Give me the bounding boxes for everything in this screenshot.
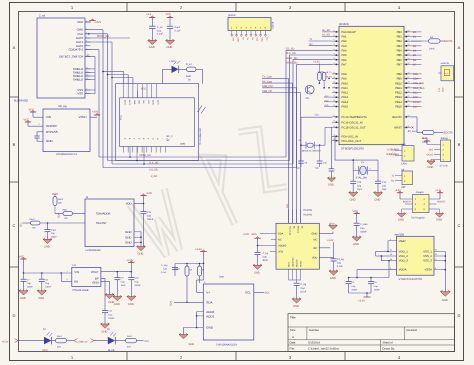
svg-text:VSS: VSS	[77, 92, 83, 96]
svg-text:100K: 100K	[429, 48, 435, 51]
svg-text:ON/OFF: ON/OFF	[46, 124, 57, 128]
svg-text:Rx: Rx	[251, 38, 254, 40]
svg-text:100nF: 100nF	[135, 284, 142, 287]
resistor pair pull-ups near PA8	[318, 66, 330, 89]
power flag +3.3V right of IMU	[327, 239, 334, 244]
svg-text:SDA: SDA	[206, 301, 212, 305]
svg-text:stm32B: stm32B	[395, 232, 405, 236]
capacitor C16 100nF at J2	[141, 211, 154, 247]
capacitor C12 at PC15	[329, 127, 335, 178]
svg-text:18: 18	[333, 71, 335, 74]
capacitor C12b at X2	[315, 145, 328, 169]
wire VSS rail to ground	[442, 251, 447, 291]
svg-text:DIO: DIO	[429, 149, 433, 152]
svg-text:100nF: 100nF	[45, 286, 52, 289]
svg-text:SCL/SCLK: SCL/SCLK	[289, 226, 292, 236]
svg-text:PA11: PA11	[342, 87, 349, 90]
svg-text:C1b: C1b	[147, 211, 152, 214]
wire CD/DAT3 vertical	[85, 50, 99, 157]
ground at C12	[327, 177, 335, 186]
SD card connector J1	[37, 14, 91, 99]
svg-text:22: 22	[333, 90, 335, 93]
svg-text:XTN045-33GB: XTN045-33GB	[72, 289, 89, 292]
wire VDDA branch	[348, 260, 397, 278]
net label SDA rotated	[58, 213, 61, 218]
net label RX_Cam near crystal	[387, 153, 397, 156]
svg-text:V+: V+	[206, 291, 210, 295]
svg-text:24: 24	[390, 249, 392, 252]
svg-text:16: 16	[333, 57, 335, 60]
svg-text:GND: GND	[398, 219, 404, 222]
resistor Rdx1 in SDA line	[55, 209, 73, 221]
svg-text:pinout: pinout	[228, 14, 236, 17]
svg-text:D: D	[458, 313, 461, 318]
capacitor C_stub 100nF with VCC	[353, 210, 369, 237]
svg-text:JCN: JCN	[278, 251, 283, 254]
svg-text:SCL_Sub: SCL_Sub	[413, 82, 425, 85]
svg-text:19: 19	[333, 76, 335, 79]
wire net USB_DP	[262, 90, 301, 224]
wire net CS_SD rail	[99, 50, 332, 158]
svg-text:PA13: PA13	[342, 96, 349, 99]
svg-text:PB4: PB4	[397, 50, 403, 53]
svg-text:17: 17	[333, 62, 335, 65]
svg-text:B4: B4	[413, 49, 417, 52]
ground at C7	[19, 290, 28, 301]
svg-text:21: 21	[408, 43, 410, 46]
resistor R4 100K to BOOT1	[411, 36, 443, 51]
svg-text:GND: GND	[125, 230, 131, 234]
svg-text:PB10: PB10	[395, 82, 402, 85]
svg-text:47: 47	[435, 258, 437, 261]
svg-text:13: 13	[333, 43, 335, 46]
svg-text:+3.3V: +3.3V	[435, 189, 442, 192]
svg-text:NC: NC	[314, 239, 318, 242]
wire TMP100 SCL	[254, 291, 264, 293]
svg-text:w_m: w_m	[445, 73, 449, 75]
svg-text:PA3: PA3	[342, 45, 347, 48]
svg-text:BLUE: BLUE	[108, 349, 115, 352]
net label SCL rotated at IMU top	[286, 203, 289, 208]
wire EN tie	[61, 273, 72, 281]
svg-text:GND: GND	[149, 46, 155, 49]
net label A1_SD at PA1	[322, 34, 332, 37]
svg-text:PA7: PA7	[342, 63, 347, 66]
wire module top row 1	[102, 71, 123, 84]
svg-text:0.1uF: 0.1uF	[157, 33, 164, 36]
svg-text:100nF: 100nF	[27, 286, 34, 289]
svg-text:PB15: PB15	[395, 106, 402, 109]
svg-text:CD/DAT3*2: CD/DAT3*2	[69, 48, 84, 52]
net label BOOT1 at JTAG	[438, 201, 447, 204]
power port +3.3V at LED row	[2, 339, 42, 344]
wire VIN rail	[23, 270, 72, 274]
svg-text:Rdx1: Rdx1	[63, 209, 69, 212]
net label A13	[324, 95, 332, 98]
ground right of JTAG	[435, 209, 443, 222]
svg-text:C:\Users\..\stm32-SchDoc: C:\Users\..\stm32-SchDoc	[308, 348, 340, 351]
capacitor C4 100nF	[346, 278, 359, 294]
svg-text:23: 23	[408, 53, 410, 56]
svg-text:VSSA: VSSA	[425, 268, 433, 272]
net label CS_SD lower	[149, 169, 158, 172]
svg-text:ITG2705: ITG2705	[303, 209, 313, 212]
net label Tx at JdR	[391, 174, 394, 177]
wire VDDIO	[257, 240, 276, 252]
svg-text:NC_2: NC_2	[167, 135, 174, 138]
net label RX_Cam at CAM	[389, 153, 399, 156]
svg-text:30nF: 30nF	[263, 259, 269, 262]
svg-text:VDD_2: VDD_2	[399, 254, 408, 258]
wire VDD rail verticals	[376, 251, 389, 261]
svg-text:SCL: SCL	[265, 292, 271, 295]
svg-text:A: A	[13, 45, 16, 50]
svg-text:Date:: Date:	[290, 342, 297, 345]
svg-text:PB8: PB8	[397, 73, 403, 76]
svg-text:SHIELD: SHIELD	[73, 78, 83, 82]
svg-text:INT: INT	[313, 247, 318, 250]
svg-text:+3.3V: +3.3V	[358, 300, 365, 303]
svg-text:PA14: PA14	[342, 101, 349, 104]
svg-text:+3.3V: +3.3V	[195, 248, 202, 251]
svg-text:A: A	[292, 335, 294, 339]
svg-text:30: 30	[408, 90, 410, 93]
svg-text:12pf: 12pf	[357, 188, 362, 191]
svg-text:SDA/ADDR: SDA/ADDR	[96, 212, 110, 216]
svg-text:CS_SD: CS_SD	[149, 169, 158, 172]
capacitor C9 at X2	[296, 161, 308, 170]
svg-text:Rsd1: Rsd1	[186, 75, 192, 78]
svg-text:Tx: Tx	[246, 38, 249, 40]
svg-text:C: C	[458, 223, 461, 228]
svg-text:Jmp: Jmp	[219, 275, 224, 278]
svg-text:100nF: 100nF	[108, 317, 115, 320]
ground at debug	[427, 160, 435, 170]
module part label	[199, 128, 202, 145]
svg-text:SCL/INT: SCL/INT	[96, 221, 107, 225]
pinout header J3	[228, 14, 275, 42]
svg-text:0.1uF: 0.1uF	[337, 265, 343, 268]
svg-text:100nF: 100nF	[360, 231, 367, 234]
svg-text:51R: 51R	[127, 346, 131, 349]
net label SCL at TMP100	[265, 292, 271, 295]
svg-text:20: 20	[333, 81, 335, 84]
wire J2 GND pins	[134, 232, 142, 247]
power flag +3.3V at U3 VOUT	[127, 259, 135, 272]
wire net MOSI_SD rail	[103, 64, 332, 167]
svg-text:1K: 1K	[188, 78, 191, 81]
svg-text:GND: GND	[125, 241, 131, 245]
svg-text:25: 25	[333, 104, 335, 107]
svg-text:CLK_SD: CLK_SD	[286, 52, 296, 55]
svg-text:0.1uF: 0.1uF	[300, 290, 306, 293]
wire SDA to IMU	[260, 233, 276, 235]
power flag +3V3 at U_sd VOUT	[90, 111, 100, 118]
svg-text:CMD: CMD	[133, 100, 136, 105]
capacitor C_hg 30nF at IMU	[255, 246, 269, 266]
wire CMD to module	[85, 30, 103, 168]
crystal X2 32.768kHz	[299, 114, 333, 162]
svg-text:ST-Link: ST-Link	[440, 165, 449, 168]
temperature sensor U4 TMP100	[203, 281, 254, 347]
net label CS_SD at MCU	[286, 47, 295, 50]
svg-text:B6: B6	[413, 59, 417, 62]
svg-text:Cap: Cap	[360, 227, 365, 230]
IMU top pin stubs	[289, 209, 301, 223]
wire IMU GND pin up to ground	[319, 223, 337, 234]
LED D2 BLUE	[107, 328, 116, 352]
svg-text:33: 33	[408, 104, 410, 107]
svg-text:GND: GND	[237, 38, 240, 43]
net labels ITG2705	[303, 209, 313, 216]
svg-text:GND: GND	[92, 280, 98, 284]
svg-text:+3.3V: +3.3V	[422, 137, 429, 140]
wire net RX_Cam	[262, 80, 292, 223]
resistor R3	[115, 335, 143, 348]
svg-text:PB5: PB5	[397, 54, 403, 57]
net label MOSI_SD	[140, 154, 151, 157]
ground at C1b2	[43, 238, 52, 248]
net label CLK_SD	[149, 162, 159, 165]
net label TX_Cam at CAM	[390, 148, 399, 151]
svg-text:21: 21	[333, 85, 335, 88]
svg-text:10uF: 10uF	[121, 284, 127, 287]
svg-text:PA10: PA10	[342, 82, 349, 85]
wire module top row 3	[111, 77, 133, 84]
svg-text:DIO: DIO	[413, 96, 418, 99]
svg-text:R_sd: R_sd	[186, 63, 192, 66]
svg-text:GND: GND	[328, 183, 334, 186]
svg-text:CAM: CAM	[401, 162, 407, 165]
net label A14	[324, 99, 332, 102]
ground at C9b	[113, 295, 122, 306]
svg-text:3_SD: 3_SD	[151, 175, 157, 178]
svg-text:IOR: IOR	[401, 186, 406, 189]
svg-text:VDD_3: VDD_3	[399, 259, 408, 263]
svg-text:36: 36	[390, 253, 392, 256]
svg-text:BOOT0: BOOT0	[444, 132, 454, 135]
net label LNB0.3V with arrows	[74, 339, 108, 344]
svg-text:GND: GND	[180, 143, 185, 146]
ground at J2	[137, 245, 146, 255]
svg-text:11: 11	[333, 34, 335, 37]
stm32B left pin stubs	[389, 238, 397, 270]
svg-text:+3.3V: +3.3V	[146, 192, 153, 195]
antenna module ant32.B	[438, 62, 454, 92]
capacitor C13 12pF	[350, 170, 362, 192]
svg-text:VCC: VCC	[24, 119, 30, 122]
net label A9_Rx	[326, 76, 333, 79]
svg-text:TF-01A MicroSD: TF-01A MicroSD	[199, 128, 202, 145]
svg-text:SDA: SDA	[252, 233, 257, 236]
svg-text:C_tmp: C_tmp	[161, 264, 168, 267]
resistor Rdx2 in SCL line	[30, 218, 41, 230]
wire SHIELD/VSS bus	[85, 57, 95, 94]
svg-text:VBAT: VBAT	[399, 239, 406, 243]
svg-text:A9_Rx: A9_Rx	[326, 76, 333, 79]
svg-text:27: 27	[408, 76, 410, 79]
ground at C8	[37, 290, 46, 301]
svg-text:RX_Cam: RX_Cam	[387, 153, 397, 156]
no-connect cross at NRST	[411, 126, 413, 128]
capacitor C_sd 0.1uF	[146, 13, 163, 40]
svg-text:Rsv3: Rsv3	[127, 335, 133, 338]
svg-text:27: 27	[333, 120, 335, 123]
wire module bottom drops	[130, 147, 144, 165]
svg-text:BOOT0: BOOT0	[392, 116, 402, 119]
resistor Rsd1 1K	[179, 63, 203, 84]
net label MISO_SD on DAT0 wire	[85, 35, 130, 38]
svg-text:EN: EN	[74, 280, 78, 284]
wire Rx to PA3	[309, 43, 332, 46]
svg-text:FSYNC: FSYNC	[300, 260, 303, 267]
ground at C_Ag	[292, 298, 301, 308]
svg-text:DAT1: DAT1	[156, 100, 159, 105]
svg-text:26: 26	[408, 71, 410, 74]
svg-text:VDD: VDD	[138, 100, 141, 105]
svg-text:PB0: PB0	[397, 31, 403, 34]
svg-text:Number: Number	[309, 328, 319, 332]
regulator U_sd LP2985	[43, 105, 90, 156]
svg-text:Rdx2: Rdx2	[30, 218, 36, 221]
svg-text:BOOT1: BOOT1	[438, 201, 447, 204]
svg-text:VOUT: VOUT	[79, 115, 88, 119]
svg-text:5/15/2019: 5/15/2019	[308, 342, 320, 345]
svg-text:RESV: RESV	[288, 261, 291, 267]
svg-text:VDD: VDD	[312, 257, 318, 260]
svg-text:Cap: Cap	[357, 184, 362, 187]
svg-text:PB3: PB3	[397, 45, 403, 48]
net label CLK_SD at MCU	[286, 52, 296, 55]
svg-text:B15: B15	[413, 105, 418, 108]
capacitor C9b 10uF	[114, 272, 126, 297]
svg-text:5k: 5k	[202, 269, 204, 272]
svg-text:20: 20	[408, 39, 410, 42]
power flag VCC at U_sd ONOFF	[24, 119, 44, 127]
net label BOOT0 at JTAG	[403, 201, 412, 204]
svg-text:LP2985A26SO-3.3: LP2985A26SO-3.3	[56, 153, 78, 156]
svg-text:24: 24	[333, 99, 335, 102]
LED LED0	[163, 60, 180, 84]
svg-text:MISO_SD: MISO_SD	[286, 57, 298, 60]
svg-text:GND: GND	[329, 223, 335, 226]
svg-text:RED: RED	[43, 349, 48, 352]
svg-text:NC: NC	[167, 139, 171, 142]
svg-text:C3_Ag: C3_Ag	[337, 258, 345, 261]
wire IMU VDD to +3.3V rail	[319, 244, 333, 259]
svg-text:GND: GND	[189, 343, 195, 346]
net label C12 at LED row end	[145, 340, 150, 343]
svg-text:GND: GND	[350, 199, 356, 202]
power flag +3.3V at debug	[422, 137, 435, 144]
power flag +3.3V at IMU left	[243, 233, 261, 246]
svg-text:PD1-OSC_OUT: PD1-OSC_OUT	[342, 140, 362, 143]
I2C sensor J2	[85, 196, 134, 252]
svg-text:XTAL_8M: XTAL_8M	[356, 176, 367, 179]
svg-text:SCL: SCL	[245, 291, 251, 295]
net label BOOT0 right	[444, 132, 454, 135]
power flag +3.3V near MOSI row	[313, 61, 320, 66]
svg-text:stm32A: stm32A	[339, 22, 349, 26]
svg-text:+3.3V: +3.3V	[243, 233, 250, 236]
svg-text:+3.3V: +3.3V	[313, 61, 320, 64]
ground at C13	[349, 191, 358, 201]
svg-text:ABS06-32.768KHZ-T: ABS06-32.768KHZ-T	[302, 149, 322, 152]
svg-text:GND: GND	[441, 87, 444, 92]
ground at C_stub	[352, 236, 361, 246]
svg-text:GND: GND	[254, 271, 260, 274]
svg-text:+3.3V: +3.3V	[395, 189, 402, 192]
wire net USB_DM	[262, 85, 297, 223]
ground at C_hg	[253, 264, 262, 274]
svg-text:GND: GND	[442, 299, 448, 302]
svg-text:B: B	[458, 142, 461, 147]
svg-text:PA12: PA12	[342, 92, 349, 95]
ground at U3 GND pin	[101, 281, 115, 304]
svg-text:24: 24	[408, 57, 410, 60]
svg-text:PD0-OSC_IN: PD0-OSC_IN	[342, 135, 359, 138]
capacitor C7 100nF	[21, 273, 34, 291]
svg-text:A: A	[458, 45, 461, 50]
svg-text:C14: C14	[382, 181, 387, 184]
svg-text:GND: GND	[312, 233, 318, 236]
wire TMP100 SDA	[174, 301, 203, 303]
svg-text:UJ2K6: UJ2K6	[272, 21, 275, 29]
svg-text:31: 31	[408, 95, 410, 98]
svg-text:R2_boot: R2_boot	[408, 130, 417, 133]
svg-text:MOSI_SD: MOSI_SD	[140, 154, 151, 157]
net labels B0-B7	[413, 31, 417, 67]
transistor Q1 USB pullup	[305, 85, 314, 100]
capacitor C14 12pF	[375, 170, 387, 192]
microSD module inner box U2	[120, 84, 195, 153]
svg-text:VDDIO: VDDIO	[278, 245, 286, 248]
svg-text:GND: GND	[44, 246, 50, 249]
svg-text:0.1uF: 0.1uF	[175, 29, 182, 32]
svg-text:Size: Size	[290, 328, 296, 332]
connector JTAG Tstagsh2	[405, 191, 437, 219]
svg-text:18: 18	[408, 29, 410, 32]
svg-text:+3V3: +3V3	[92, 111, 99, 114]
svg-text:B1: B1	[413, 36, 417, 39]
svg-text:PA6: PA6	[342, 59, 347, 62]
svg-text:NC: NC	[278, 239, 282, 242]
svg-text:PC15-OSC32_OUT: PC15-OSC32_OUT	[342, 126, 366, 129]
svg-text:B: B	[13, 142, 16, 147]
svg-text:100nF: 100nF	[147, 218, 154, 221]
ground at C10	[127, 295, 136, 306]
net label 3_SD	[151, 175, 157, 178]
svg-text:Cap: Cap	[382, 184, 387, 187]
svg-text:VSS_3: VSS_3	[423, 259, 432, 263]
svg-text:PB14: PB14	[395, 101, 402, 104]
svg-text:3.3V: 3.3V	[438, 87, 441, 92]
svg-text:ADD0/SDO: ADD0/SDO	[291, 257, 294, 267]
svg-text:VIN: VIN	[46, 115, 51, 119]
wire net MISO_SD rail	[112, 60, 332, 165]
net label SDA at IMU	[252, 233, 257, 236]
net label MISO_SD at MCU	[286, 57, 298, 60]
wire net CLK_SD rail	[108, 55, 333, 161]
svg-text:ADD1: ADD1	[206, 314, 214, 318]
svg-text:9: 9	[86, 43, 87, 46]
svg-text:+3V3: +3V3	[95, 21, 102, 24]
svg-text:SDA_Sub: SDA_Sub	[413, 87, 425, 90]
svg-text:C: C	[13, 223, 16, 228]
capacitor bypass at U_sd	[34, 132, 43, 141]
wire DETECT_SWITCH stub	[85, 54, 95, 57]
svg-text:Cap: Cap	[263, 255, 268, 258]
